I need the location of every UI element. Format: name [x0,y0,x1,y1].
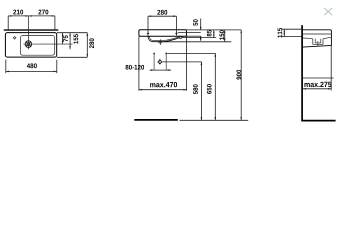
front view: right supply dot [165,52,167,54]
dimension 75: arrows [62,33,64,44]
dimension max.470: dimension line [139,89,187,91]
side view: basin profile outline [303,30,332,47]
side view: basin front rim line [303,33,332,35]
dimension 210/270: extension line mid through tap [28,16,30,50]
side view: drain box outer [313,39,323,45]
front view: left tap position line [147,16,149,35]
front view: right tap position line [175,16,177,35]
dimension 75: dimension line [62,33,64,44]
top view: basin outer outline [5,33,56,57]
dimension text 900 [236,70,241,80]
dimension 210/270: extension line left [7,16,9,30]
dimension max.470: extension right [186,37,188,91]
dimension text 270 [38,10,48,15]
dimension 80-120: arrows outside [151,69,170,71]
dimension 580: dimension line [200,62,202,120]
top view right dims: extension line tap centerline [33,43,72,45]
top view: tap hole circle [25,41,32,48]
dimension 155: dimension line [69,33,71,50]
dimension text 155 [74,34,79,44]
dimension 50: lower tail [200,36,202,41]
side view: drain center line [317,41,319,46]
dimension 900: dimension line [240,30,242,120]
dimension 115: arrows [284,29,286,36]
dimension max.470: extension left [138,36,140,90]
front view: right tap position diamond [175,32,178,34]
dimension 580: arrows [201,62,203,120]
front view: supply extension to 650 [167,52,215,54]
top view right dims: extension line basin top edge [57,32,87,34]
front view: rim slab outline [139,30,187,36]
front view right dims: extension tap line [178,32,201,34]
front view: right supply pipe line [165,53,167,71]
dimension 210/270: arrows [8,15,55,17]
dimension text 580 [193,84,198,94]
dimension 650: arrows [215,53,217,120]
dimension text 280top [89,38,94,48]
dimension max.275: extension right [330,46,332,91]
front view: bowl outer line [148,36,179,42]
dimension text 115 [278,28,283,38]
dimension max.275: dimension line [303,88,331,90]
dimension 85: arrows [213,30,215,38]
dimension text 210 [13,10,23,15]
side view: basin inner bowl line left [303,37,313,40]
dimension max.275: arrows [303,88,331,90]
dimension 480: extension lines [5,60,7,74]
dimension text 150 [219,30,224,40]
dimension 280 front: dimension line [148,15,176,17]
dimension 280 front: arrows [148,15,176,17]
front view: floor line thick [134,119,178,121]
side view: floor line [301,120,335,122]
top view: tap hole cross horizontal [23,43,33,45]
side view: basin inner bowl line right [323,38,331,39]
front view right dims: extension overflow [182,37,216,39]
dimension 155: arrows [69,33,71,50]
side view: wall line [301,25,303,120]
front view right dims: extension bowl bottom [163,41,231,43]
front view: bowl inner line [149,36,179,40]
front view: drain flange [158,42,162,44]
side view: max zone boundary line [303,77,334,79]
front view: overflow oval [179,36,182,38]
top view: wall line [4,29,59,30]
top view right dims: extension line basin bottom edge [57,56,87,58]
dimension max.470: arrows [139,89,187,91]
top view: fixing hole diamond center [14,37,15,38]
dimension 210/270: dimension line [8,15,55,17]
dimension text 50 [193,19,198,25]
dimension text 75 [63,35,68,41]
front view right dims: extension rim top [187,29,242,31]
dimension 115: extension top [282,28,302,30]
dimension 280 top view: arrows [87,33,89,58]
front view: waste outlet vertical [159,59,161,65]
dimension text 480 [27,63,37,68]
dimension 900: arrows [240,30,242,120]
dimension 280 top view: dimension line [86,33,88,58]
dimension 50: arrows outside [200,27,202,40]
front view: waste extension to 580 [162,61,201,63]
dimension 210/270: extension line right [54,16,56,30]
dimension text 80-120 [126,65,145,70]
dimension 115: extension bottom [282,36,302,38]
logo X [324,8,332,15]
dimension 480: arrows [6,71,57,73]
dimension 150: arrows [224,30,226,42]
dimension text 650 [207,84,212,94]
dimension 115: dimension line [283,29,285,36]
dimension 150: dimension line [224,30,226,42]
dimension 80-120: dimension line [150,69,172,71]
dimension 480: dimension line [6,70,57,72]
front view: waste outlet diamond [158,60,162,64]
dimension 85: dimension line [213,30,215,38]
side view: drain box inner [315,39,321,43]
front view: drain cross [158,39,162,45]
front view: floor line thin [180,119,249,121]
top view: basin inner bowl outline [20,36,54,56]
dimension text max470 [150,82,177,87]
top view: fixing hole diamond [13,36,17,40]
front view: left supply pipe line [153,53,155,71]
front view right dims: extension rim bottom [187,35,202,37]
front view: left supply dot [153,52,155,54]
dimension 650: dimension line [214,53,216,120]
dimension text max275 [304,82,331,87]
dimension text 85 [207,30,212,36]
front view: left tap position diamond [147,32,150,34]
dimension 50: upper tail [200,19,202,30]
dimension text 280front [157,10,167,15]
